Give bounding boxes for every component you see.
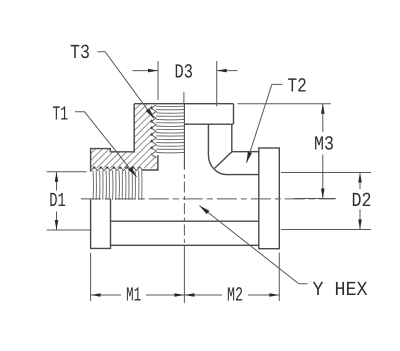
tee body: cone tangent edge bbox=[215, 152, 232, 169]
svg-text:M1: M1 bbox=[126, 285, 141, 308]
leader T3 bbox=[97, 52, 154, 119]
hex flat edge line (lower half) bbox=[111, 220, 259, 222]
dimension D3 line and arrows bbox=[133, 70, 158, 72]
tee body: branch nut top face bbox=[134, 103, 233, 105]
tee body: run top edge right of elbow bbox=[227, 174, 259, 176]
dimension D1 extension lines bbox=[47, 171, 87, 173]
left female thread (T1) profile lines bbox=[93, 170, 142, 199]
branch female thread (T3) profile lines bbox=[156, 106, 184, 153]
dimension M1 line and arrows bbox=[91, 294, 121, 296]
horizontal centerline of run bbox=[81, 198, 335, 200]
branch bore left wall and crest line bbox=[142, 155, 158, 170]
svg-text:D3: D3 bbox=[175, 62, 194, 85]
dimension D2 extension lines bbox=[281, 172, 371, 174]
dimension M3 extension lines bbox=[238, 103, 332, 105]
svg-text:M2: M2 bbox=[227, 285, 243, 308]
vertical centerline of branch (dash-dot) bbox=[183, 175, 185, 251]
dimension M2 line and arrows bbox=[184, 294, 222, 296]
centre extension line for M1/M2 bbox=[183, 250, 185, 303]
leader Y HEX bbox=[199, 206, 307, 284]
tee body: left face and hex top with wrench ledge bbox=[91, 104, 135, 172]
branch half-section boundary line bbox=[183, 104, 185, 170]
leader T1 bbox=[75, 112, 137, 177]
tee body: neck below nut right bbox=[231, 124, 233, 152]
tee body: branch nut bottom (right half) bbox=[184, 123, 233, 125]
left thread crest sawtooth (top of bore) bbox=[91, 166, 143, 170]
svg-text:Y HEX: Y HEX bbox=[313, 279, 368, 302]
svg-text:T2: T2 bbox=[288, 76, 307, 99]
svg-text:D1: D1 bbox=[49, 190, 66, 213]
leader T2 bbox=[247, 84, 283, 162]
svg-text:M3: M3 bbox=[314, 134, 334, 157]
svg-text:T3: T3 bbox=[70, 42, 90, 65]
dimension M3 line and arrows bbox=[322, 104, 324, 132]
tee body: boss top edge to right flange bbox=[232, 151, 259, 153]
vertical centerline stub above branch bbox=[183, 92, 185, 104]
branch thread crest sawtooth (left edge of bore) bbox=[150, 105, 156, 158]
right flange bbox=[259, 148, 280, 249]
dimension D3 extension lines bbox=[157, 61, 159, 100]
svg-text:T1: T1 bbox=[53, 104, 69, 127]
left flange (lower half) bbox=[91, 199, 111, 248]
dimension M1/M2 extension lines bbox=[90, 253, 92, 301]
tee body: branch nut right edge bbox=[233, 104, 235, 125]
dimension D2 line and arrows bbox=[359, 173, 361, 189]
dimension D1 line and arrows bbox=[56, 172, 58, 190]
tee body: branch outer wall with elbow fillet bbox=[208, 124, 226, 174]
hex bottom silhouette bbox=[111, 244, 259, 246]
svg-text:D2: D2 bbox=[352, 190, 372, 213]
